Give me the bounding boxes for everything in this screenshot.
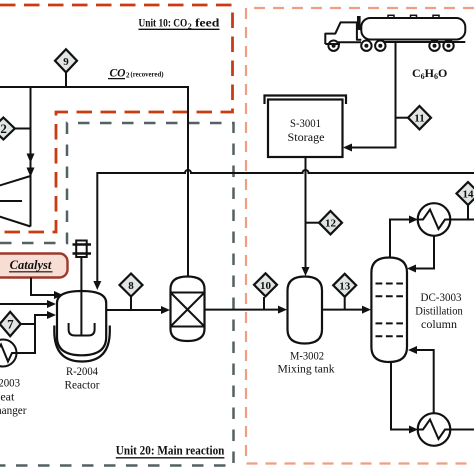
mixing tank M-3002 vessel xyxy=(288,277,323,344)
svg-text:12: 12 xyxy=(325,218,337,230)
node 9 stub xyxy=(65,72,67,87)
heat exchanger E-2003 (cut at left) xyxy=(0,340,17,367)
label M-3002 Mixing tank xyxy=(278,349,335,376)
node 11 stub xyxy=(396,117,409,119)
truck wheels xyxy=(328,41,453,51)
svg-text:Heat: Heat xyxy=(0,390,15,404)
stream diamond 8 xyxy=(120,274,143,297)
separator packing X xyxy=(171,293,205,327)
svg-text:(recovered): (recovered) xyxy=(131,70,164,79)
svg-text:2: 2 xyxy=(0,121,7,136)
stream diamond 10 xyxy=(254,273,277,296)
node 10 stub xyxy=(263,297,265,310)
svg-text:10: 10 xyxy=(260,280,272,292)
stream diamond 14 xyxy=(457,182,474,205)
catalyst label box xyxy=(0,254,68,278)
wire: mixer outlet to column xyxy=(322,309,362,311)
svg-text:Storage: Storage xyxy=(288,130,325,144)
stream diamond 11 xyxy=(408,106,431,129)
agitator gland xyxy=(73,241,92,258)
svg-text:Reactor: Reactor xyxy=(65,378,100,392)
wire: storage to mixer xyxy=(305,157,307,268)
svg-text:9: 9 xyxy=(63,56,69,68)
node 14 stub xyxy=(467,205,469,220)
stream diamond 2 xyxy=(0,118,15,140)
svg-text:R-2004: R-2004 xyxy=(66,364,98,378)
arrow into condenser xyxy=(409,216,418,224)
label R-2004 Reactor xyxy=(65,364,100,392)
wire: column overhead to condenser xyxy=(390,220,409,258)
arrow into mixer top xyxy=(302,267,310,276)
arrow into reactor top xyxy=(93,281,101,290)
arrow down on compressor feed xyxy=(27,154,35,164)
label Unit 20: Main reaction xyxy=(116,443,225,458)
unit 20 boundary (gray dashed) xyxy=(0,123,234,466)
arrow reflux into column xyxy=(407,265,416,273)
arrow into mixer xyxy=(278,306,287,314)
truck tractor xyxy=(325,16,361,44)
wire: feed from left edge into reactor xyxy=(0,303,47,305)
svg-text:Distillation: Distillation xyxy=(415,304,463,318)
label CO2 (recovered) xyxy=(108,68,164,80)
svg-text:M-3002: M-3002 xyxy=(290,349,324,363)
stream diamond 7 xyxy=(0,312,21,336)
truck tank trailer xyxy=(361,15,465,42)
node 13 stub xyxy=(344,297,346,310)
separator vessel xyxy=(171,277,205,342)
svg-text:Mixing tank: Mixing tank xyxy=(278,362,335,376)
svg-text:S-3001: S-3001 xyxy=(290,116,321,130)
compressor K (cut at left edge) xyxy=(0,176,31,227)
node 12 stub xyxy=(306,222,320,224)
arrow into reboiler xyxy=(409,426,418,434)
arrow into compressor xyxy=(27,168,35,178)
wire: reboiler outlet to right edge xyxy=(450,429,474,431)
wire: reactor outlet to separator xyxy=(106,309,161,311)
impeller xyxy=(69,323,95,336)
arrow into storage xyxy=(343,144,352,152)
distillation column DC-3003 vessel xyxy=(371,258,407,363)
arrow E-2003 line into reactor xyxy=(47,311,56,319)
svg-text:feed: feed xyxy=(195,16,220,30)
wire: condenser outlet to right edge xyxy=(450,219,474,221)
svg-text:Catalyst: Catalyst xyxy=(10,258,52,272)
svg-text:8: 8 xyxy=(128,280,134,292)
unit 30 boundary (salmon dashed) xyxy=(246,8,474,464)
wire: separator outlet to mixer xyxy=(205,309,279,311)
column trays xyxy=(376,284,404,337)
svg-text:Unit 20: Main reaction: Unit 20: Main reaction xyxy=(116,443,225,458)
svg-text:11: 11 xyxy=(414,113,424,125)
wire: compressor feed xyxy=(30,87,32,176)
node 8 stub xyxy=(130,296,132,310)
svg-text:column: column xyxy=(421,317,457,331)
svg-text:E-2003: E-2003 xyxy=(0,376,20,390)
node 2 stub xyxy=(3,128,30,130)
node 7 stub xyxy=(10,323,35,325)
wire: column bottoms to reboiler xyxy=(391,362,409,430)
svg-text:DC-3003: DC-3003 xyxy=(421,290,462,304)
wire: E-2003 to reactor xyxy=(17,315,48,353)
reactor R-2004 vessel xyxy=(57,291,106,355)
label DC-3003 Distillation column xyxy=(415,290,463,331)
svg-text:2: 2 xyxy=(126,72,130,80)
wire: truck to storage xyxy=(352,43,396,148)
wire: condenser reflux to column xyxy=(416,236,434,269)
svg-text:Unit 10: CO: Unit 10: CO xyxy=(139,16,188,30)
stream diamond 13 xyxy=(333,274,356,297)
svg-text:7: 7 xyxy=(7,317,14,332)
svg-text:exchanger: exchanger xyxy=(0,403,27,417)
label Unit 10: CO2 feed xyxy=(139,16,220,32)
condenser E-3004 xyxy=(418,203,451,236)
wire: reboiler vapor return xyxy=(417,350,434,414)
wire: CO2 recovered header y=87 xyxy=(0,87,188,277)
arrow into column xyxy=(362,306,371,314)
stream diamond 9 xyxy=(55,49,77,72)
storage tank S-3001 xyxy=(265,96,347,158)
svg-text:13: 13 xyxy=(339,280,351,292)
svg-text:C6H6O: C6H6O xyxy=(412,66,447,81)
wire: catalyst to reactor xyxy=(31,278,54,296)
svg-text:14: 14 xyxy=(463,189,474,201)
wire: main horizontal header y=173 with hops xyxy=(97,170,474,173)
stream diamond 12 xyxy=(319,211,342,234)
agitator shaft xyxy=(80,257,82,336)
reactor jacket xyxy=(54,326,110,362)
wire: header to reactor top xyxy=(96,172,98,282)
arrow into separator xyxy=(161,306,170,314)
reboiler E-3005 xyxy=(418,413,451,446)
arrow vapor into column xyxy=(408,346,417,354)
arrow catalyst into reactor xyxy=(54,291,63,299)
label E-2003 heat exchanger xyxy=(0,376,27,418)
arrow feed into reactor xyxy=(47,300,56,308)
unit 10 boundary (dark red dashed) xyxy=(0,5,233,232)
svg-text:CO: CO xyxy=(110,68,126,80)
